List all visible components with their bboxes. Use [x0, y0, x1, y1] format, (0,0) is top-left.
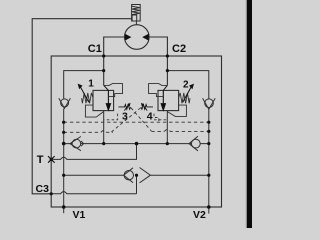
dashed pilot rail right segment (to V2)	[151, 130, 209, 132]
valve 2 adjustment arrow	[183, 84, 194, 103]
valve 2 internal flow arrow	[161, 85, 167, 110]
wire: T branch with hump over V1 riser, up to rail	[51, 144, 136, 160]
dashed pilot rail (upper drain rail)	[64, 121, 209, 123]
wire: valve 1 outlet to rail	[103, 111, 105, 144]
svg-text:4: 4	[147, 111, 153, 123]
valve 1 spring	[82, 93, 93, 103]
wire: C3 line with hump over V1 riser	[51, 192, 136, 194]
valve 2 spring	[179, 93, 190, 103]
svg-text:V1: V1	[73, 209, 86, 221]
pilot line X: valve1 pilot to V2 side (dashed diagonal)	[131, 108, 151, 131]
wire: CV1 down to rail junction	[63, 108, 65, 143]
wire: left branch from C1 to check CV1	[64, 71, 104, 99]
main internal rail wire	[64, 143, 209, 145]
svg-text:1: 1	[88, 78, 94, 89]
check valve CV3 (left horizontal on rail)	[70, 137, 84, 151]
wire: V2 riser (lower right vertical)	[208, 109, 210, 213]
valve 2 pilot step passage	[149, 84, 168, 97]
wire: right branch from C2 to check CV2	[167, 71, 208, 99]
valve 1 spring-chamber L-pipe	[85, 105, 103, 117]
valve body outline (main block rectangle)	[51, 56, 221, 207]
dashed pilot piston box below valve 2	[154, 114, 159, 122]
check valve CV1 (left, vertical)	[59, 98, 71, 108]
valve 2 spring-chamber L-pipe	[167, 105, 186, 116]
valve 1 internal flow arrow	[104, 85, 111, 110]
svg-text:V2: V2	[193, 209, 206, 221]
valve 1 adjustment arrow	[78, 84, 89, 103]
counterbalance valve 1 body	[93, 90, 114, 110]
pilot line X: valve2 pilot to V1 side (dashed diagonal)	[111, 108, 141, 133]
svg-text:C2: C2	[172, 43, 186, 55]
svg-text:C3: C3	[36, 183, 50, 195]
wire: motor left to C1 riser	[104, 37, 125, 85]
svg-text:C1: C1	[88, 43, 102, 55]
valve 1 pilot ratio symbol	[119, 104, 131, 110]
shuttle valve SH1	[124, 168, 151, 183]
wire: valve 2 outlet to rail	[166, 111, 168, 144]
brake B1 (spring-applied brake box)	[132, 5, 141, 25]
dashed drain stub below valve 2 box	[154, 119, 167, 121]
wire: brake line from C3 left riser to brake B1	[32, 19, 132, 194]
counterbalance valve 2 body	[158, 90, 179, 110]
port T marker	[48, 156, 55, 163]
check valve CV4 (right horizontal on rail)	[189, 136, 200, 151]
wire: shuttle to V2 riser	[150, 174, 208, 176]
valve 2 pilot ratio symbol	[141, 104, 153, 110]
wire: motor right to C2 riser	[149, 37, 167, 85]
wire: shuttle output down to C3 line	[136, 175, 138, 194]
right black border strip	[246, 0, 247, 228]
check valve CV2 (right, vertical)	[203, 98, 216, 109]
valve 1 pilot step passage	[104, 84, 123, 97]
dashed pilot rail left segment (to V1)	[64, 131, 113, 133]
motor M1 (bidirectional hydraulic motor)	[125, 25, 150, 50]
svg-text:2: 2	[183, 79, 189, 90]
wire: V1 riser (lower left vertical)	[63, 144, 65, 214]
dashed pilot piston box below valve 1	[104, 114, 117, 120]
wire: shuttle feed from V1 riser	[64, 174, 124, 176]
svg-text:T: T	[37, 154, 44, 166]
